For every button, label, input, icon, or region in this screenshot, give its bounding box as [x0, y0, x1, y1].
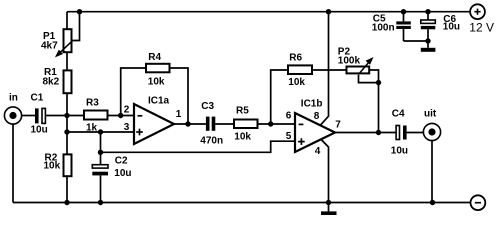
- junction C5/C6 ground node: [425, 38, 430, 43]
- wire IC1b output: [335, 132, 396, 134]
- capacitor C1 plus plate (filled): [35, 108, 39, 123]
- svg-text:10k: 10k: [234, 132, 251, 143]
- wire C5 bottom stub: [403, 29, 405, 41]
- wire IC1b pin8 to +rail: [320, 12, 329, 126]
- potentiometer P1 wiper arrow: [57, 41, 73, 56]
- wire C3 to R5: [215, 123, 233, 125]
- wire R1 to R2: [66, 94, 68, 154]
- junction node/pin3 wire: [64, 129, 69, 134]
- svg-text:C1: C1: [31, 93, 44, 104]
- potentiometer P2 wiper arrow: [359, 59, 373, 75]
- capacitor C2 bottom plate (filled): [92, 172, 108, 176]
- svg-text:8k2: 8k2: [43, 77, 60, 88]
- svg-text:8: 8: [314, 111, 320, 122]
- svg-text:10u: 10u: [114, 168, 131, 179]
- wire R5 to IC1b pin6: [258, 123, 295, 125]
- wire C6 bottom stub: [427, 29, 429, 41]
- wire R4 loop left: [121, 68, 146, 116]
- svg-text:C3: C3: [201, 101, 214, 112]
- wire +12V top rail: [67, 11, 470, 13]
- wire output jack to ground rail: [431, 141, 433, 203]
- wire input jack to C1: [22, 115, 36, 117]
- capacitor C6 bottom plate (filled): [421, 26, 436, 29]
- capacitor C3 right plate: [212, 117, 216, 131]
- connector +12V supply: [470, 4, 485, 19]
- junction C2/pin3 wire: [98, 129, 103, 134]
- ground symbol bottom bar: [321, 211, 337, 215]
- svg-text:12 V: 12 V: [469, 20, 494, 34]
- wire IC1b pin4 to ground rail: [321, 139, 329, 202]
- wire C2 to ground rail: [100, 175, 102, 202]
- svg-text:10u: 10u: [391, 145, 408, 156]
- wire P2 right terminal down to output node: [370, 70, 379, 133]
- wire C6 top stub: [427, 12, 429, 20]
- svg-text:10k: 10k: [44, 160, 61, 171]
- svg-text:in: in: [9, 93, 18, 104]
- junction P2 wiper/right terminal: [376, 80, 381, 85]
- junction C2/pin5 wire: [98, 150, 103, 155]
- junction wiper/rail: [77, 9, 82, 14]
- wire node to IC1a pin3: [67, 131, 134, 133]
- resistor R5: [234, 120, 258, 129]
- svg-text:R4: R4: [148, 52, 161, 63]
- wire C1 to R3: [45, 115, 83, 117]
- wire P1 to R1: [66, 53, 68, 70]
- junction C5/rail: [401, 9, 406, 14]
- junction output jack/ground rail: [430, 200, 435, 205]
- svg-text:4k7: 4k7: [41, 41, 58, 52]
- capacitor C2 top plate (hollow): [92, 165, 108, 168]
- wire IC1a output to C3: [174, 123, 206, 125]
- connector input jack: [4, 107, 21, 124]
- svg-text:R3: R3: [86, 98, 99, 109]
- svg-text:5: 5: [286, 131, 292, 142]
- svg-text:10u: 10u: [443, 22, 460, 33]
- potentiometer P2 body: [347, 67, 370, 74]
- svg-text:6: 6: [286, 111, 292, 122]
- svg-text:4: 4: [315, 146, 321, 157]
- wire C5 to C6 ground node: [404, 40, 429, 42]
- wire bottom ground stub: [328, 203, 330, 212]
- wire C2 branch down: [100, 132, 102, 165]
- connector output jack: [423, 123, 440, 140]
- wire top ground stub: [427, 41, 429, 48]
- resistor R6: [288, 65, 312, 74]
- svg-text:10k: 10k: [288, 77, 305, 88]
- svg-text:uit: uit: [424, 109, 437, 120]
- wire P1 wiper to rail: [73, 12, 80, 41]
- wire input jack to ground rail: [12, 124, 14, 202]
- svg-text:1k: 1k: [86, 123, 98, 134]
- svg-text:R5: R5: [236, 106, 249, 117]
- potentiometer P1 body: [64, 29, 72, 52]
- ground symbol top-right bar: [421, 48, 436, 52]
- junction pin1/R4/C3: [185, 121, 190, 126]
- svg-text:IC1b: IC1b: [301, 98, 323, 109]
- wire long run C2 node to IC1b pin5: [101, 141, 296, 152]
- wire R4 to pin1 node: [170, 68, 188, 124]
- resistor R3: [84, 111, 108, 120]
- connector 0V return terminal: [471, 195, 486, 210]
- wire R6 loop left: [271, 70, 288, 124]
- junction C6/rail: [425, 9, 430, 14]
- op-amp IC1b: [295, 113, 335, 152]
- resistor R2: [64, 154, 72, 176]
- svg-text:IC1a: IC1a: [148, 96, 170, 107]
- capacitor C5 bottom plate: [396, 26, 411, 29]
- wire R3 to IC1a pin2: [109, 115, 135, 117]
- capacitor C4 left plate (hollow): [396, 126, 399, 140]
- junction R4/pin2: [118, 113, 123, 118]
- capacitor C1 minus plate (hollow): [42, 108, 45, 123]
- svg-text:10k: 10k: [148, 76, 165, 87]
- capacitor C3 left plate: [206, 117, 210, 131]
- svg-text:2: 2: [124, 105, 130, 116]
- wire P2 wiper tap: [359, 75, 379, 83]
- capacitor C5 top plate: [396, 21, 411, 24]
- junction C2/ground rail: [98, 200, 103, 205]
- junction R1/C1/R3 node: [64, 113, 69, 118]
- svg-text:1: 1: [176, 109, 182, 120]
- junction P2/output wire: [376, 130, 381, 135]
- wire C5 top stub: [403, 12, 405, 22]
- wire R2 to ground rail: [66, 177, 68, 203]
- resistor R4: [146, 64, 170, 73]
- svg-text:C2: C2: [115, 156, 128, 167]
- svg-text:7: 7: [335, 120, 341, 131]
- junction pin4/ground rail: [326, 200, 331, 205]
- svg-text:3: 3: [124, 122, 130, 133]
- junction R6/pin6: [268, 121, 273, 126]
- wire C4 to output jack: [407, 132, 424, 134]
- wire rail to P1 top: [66, 12, 68, 29]
- svg-text:100n: 100n: [372, 23, 395, 34]
- wire ground bottom rail: [13, 202, 471, 204]
- junction R2/ground rail: [64, 200, 69, 205]
- svg-text:C4: C4: [392, 109, 405, 120]
- resistor R1: [64, 70, 72, 93]
- svg-text:R6: R6: [289, 53, 302, 64]
- wire R6 to P2: [313, 69, 346, 71]
- capacitor C4 right plate (filled): [403, 126, 407, 140]
- svg-text:470n: 470n: [200, 135, 223, 146]
- svg-text:10u: 10u: [31, 125, 48, 136]
- capacitor C6 top plate (hollow): [421, 20, 436, 23]
- svg-text:100k: 100k: [338, 55, 361, 66]
- junction pin8/rail: [326, 9, 331, 14]
- op-amp IC1a: [134, 104, 174, 144]
